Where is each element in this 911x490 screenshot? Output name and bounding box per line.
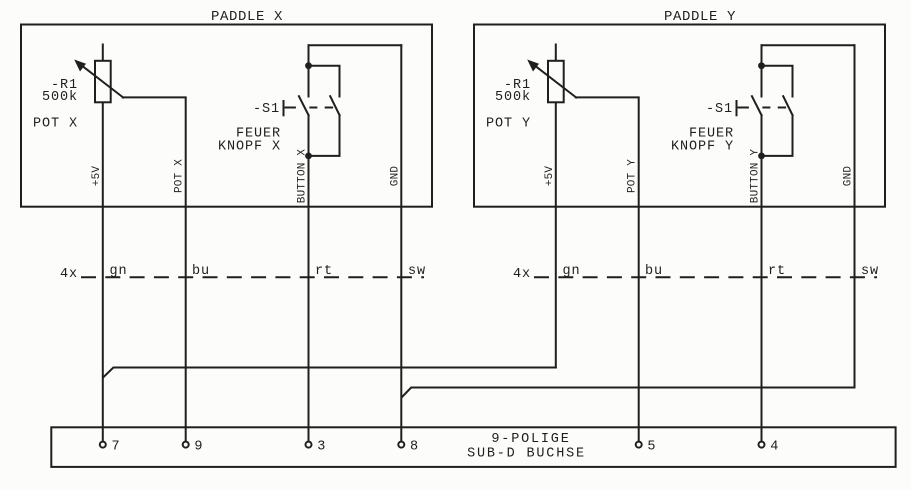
- enclosure box PADDLE Y: [474, 25, 885, 207]
- wire POT X (wiper to pin 9): [123, 97, 186, 441]
- wire POT Y (wiper to pin 5): [576, 97, 639, 441]
- pin 7: [100, 442, 106, 448]
- svg-text:4x: 4x: [513, 267, 531, 282]
- wire GND (paddle Y): [854, 45, 856, 387]
- wire BUTTON X (to pin 3): [308, 156, 310, 441]
- connector box 9-pin Sub-D: [51, 427, 895, 467]
- svg-text:500k: 500k: [495, 90, 531, 105]
- svg-text:3: 3: [317, 440, 326, 455]
- svg-text:BUTTON X: BUTTON X: [297, 149, 309, 204]
- svg-text:500k: 500k: [42, 90, 78, 105]
- svg-text:gn: gn: [110, 264, 128, 279]
- pin 8: [398, 442, 404, 448]
- wire switch top to GND (paddle Y): [762, 44, 855, 46]
- svg-text:-S1: -S1: [253, 102, 280, 117]
- svg-text:gn: gn: [563, 264, 581, 279]
- wire +5V (paddle Y): [555, 45, 557, 368]
- svg-text:+5V: +5V: [91, 166, 103, 187]
- wire +5V (paddle X, to pin 7): [102, 45, 104, 441]
- pin 3: [306, 442, 312, 448]
- svg-text:8: 8: [410, 440, 419, 455]
- junction dot bottom (paddle Y switch): [758, 153, 765, 160]
- svg-text:POT Y: POT Y: [486, 117, 531, 132]
- svg-text:4: 4: [770, 440, 779, 455]
- potentiometer R1 body (paddle Y): [548, 61, 564, 103]
- svg-text:PADDLE X: PADDLE X: [211, 9, 283, 25]
- svg-text:4x: 4x: [60, 267, 78, 282]
- svg-text:GND: GND: [389, 166, 401, 187]
- svg-text:9-POLIGE: 9-POLIGE: [491, 432, 570, 447]
- svg-text:POT Y: POT Y: [627, 159, 639, 193]
- svg-text:9: 9: [194, 440, 203, 455]
- cable dashed line (right): [535, 276, 876, 278]
- svg-text:rt: rt: [768, 264, 786, 279]
- junction dot top (paddle Y switch): [758, 62, 765, 69]
- potentiometer R1 body (paddle X): [95, 61, 111, 103]
- wire switch top to GND (paddle X): [309, 44, 402, 46]
- potentiometer R1 wiper arrow (paddle X): [79, 63, 123, 97]
- wire BUTTON Y (to pin 4): [761, 156, 763, 441]
- svg-text:POT X: POT X: [174, 159, 186, 193]
- svg-text:sw: sw: [861, 264, 879, 279]
- svg-text:bu: bu: [192, 264, 210, 279]
- potentiometer R1 wiper arrow (paddle Y): [532, 63, 576, 97]
- svg-text:PADDLE Y: PADDLE Y: [664, 9, 736, 25]
- pin 9: [183, 442, 189, 448]
- svg-text:KNOPF Y: KNOPF Y: [671, 140, 734, 155]
- svg-text:BUTTON Y: BUTTON Y: [750, 149, 762, 204]
- svg-text:bu: bu: [645, 264, 663, 279]
- wire +5V interconnect (paddle Y +5V to pin 7 net): [103, 368, 556, 378]
- svg-text:-S1: -S1: [706, 102, 733, 117]
- svg-text:7: 7: [112, 440, 121, 455]
- cable dashed line (left): [82, 276, 423, 278]
- pin 4: [759, 442, 765, 448]
- pin 5: [636, 442, 642, 448]
- svg-text:GND: GND: [842, 166, 854, 187]
- svg-text:+5V: +5V: [544, 166, 556, 187]
- svg-text:5: 5: [647, 440, 656, 455]
- switch S1 (paddle X): [299, 45, 340, 156]
- enclosure box PADDLE X: [21, 25, 432, 207]
- svg-text:rt: rt: [315, 264, 333, 279]
- mechanical coupling dashed line (paddle X switch): [283, 101, 285, 115]
- junction dot top (paddle X switch): [305, 62, 312, 69]
- svg-text:sw: sw: [408, 264, 426, 279]
- wire GND (paddle X, to pin 8): [400, 45, 402, 441]
- svg-text:KNOPF X: KNOPF X: [218, 140, 281, 155]
- junction dot bottom (paddle X switch): [305, 153, 312, 160]
- switch S1 (paddle Y): [752, 45, 793, 156]
- wire GND interconnect (paddle Y GND to pin 8 net): [402, 388, 855, 398]
- svg-text:POT X: POT X: [33, 117, 78, 132]
- mechanical coupling dashed line (paddle Y switch): [736, 101, 738, 115]
- svg-text:SUB-D BUCHSE: SUB-D BUCHSE: [467, 447, 586, 462]
